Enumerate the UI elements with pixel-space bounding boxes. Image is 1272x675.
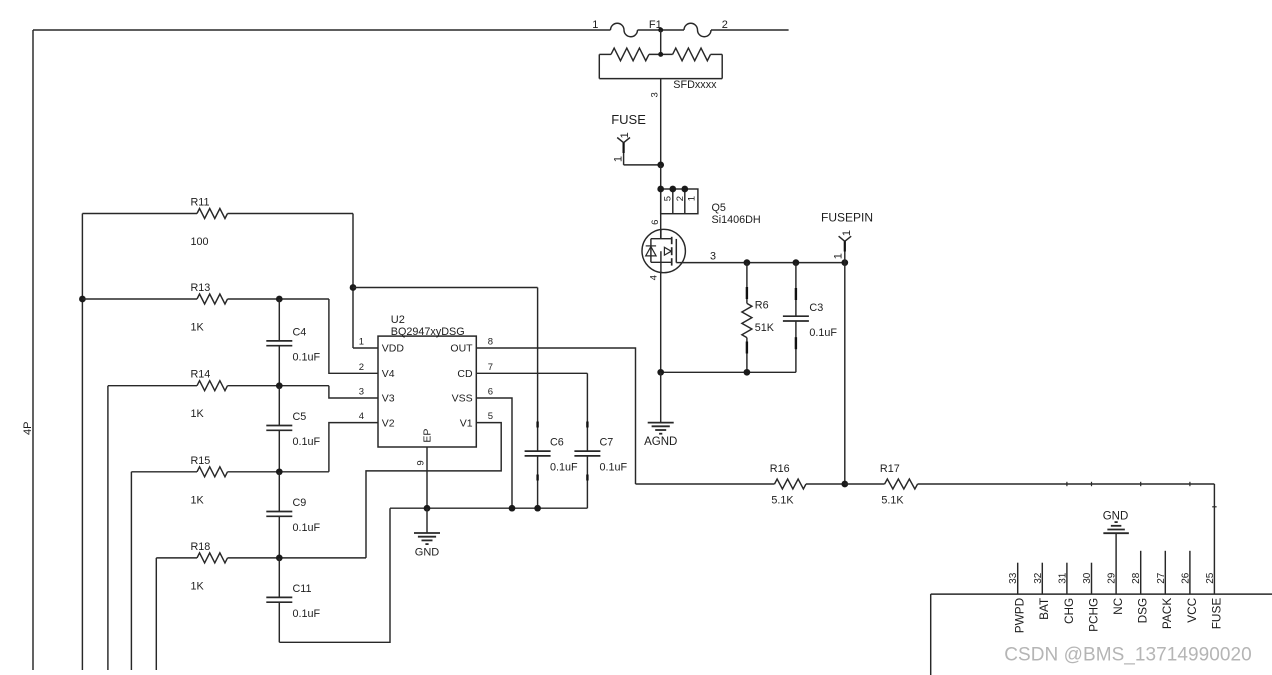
svg-text:FUSE: FUSE xyxy=(611,112,646,127)
value label 51K xyxy=(755,322,775,334)
svg-text:27: 27 xyxy=(1156,572,1167,584)
wire between fuse elements xyxy=(638,29,685,31)
value label 5.1K (R16) xyxy=(771,494,794,506)
junction node Q5 pin2 xyxy=(669,186,676,193)
transistor Q5 source pin block xyxy=(661,189,698,214)
component label R16 xyxy=(770,463,790,475)
pin number 7 of U2 xyxy=(488,362,493,373)
connector J1 body xyxy=(931,594,1272,675)
junction node gate/C3 xyxy=(793,259,800,266)
svg-text:R15: R15 xyxy=(191,455,211,467)
svg-text:100: 100 xyxy=(191,236,209,248)
wire top right segment xyxy=(711,29,789,31)
wire R15 to V2 jog xyxy=(329,423,378,472)
svg-text:25: 25 xyxy=(1205,572,1216,584)
capacitor C11 xyxy=(266,558,320,642)
resistor R13 xyxy=(82,294,329,304)
svg-text:PWPD: PWPD xyxy=(1013,598,1027,633)
pin label 2 of F1 xyxy=(722,19,728,31)
net label 4P xyxy=(22,421,34,434)
svg-text:1: 1 xyxy=(832,253,844,259)
svg-text:0.1uF: 0.1uF xyxy=(809,327,837,339)
svg-text:1: 1 xyxy=(613,156,625,162)
wire R13 left vertical xyxy=(81,299,83,670)
wire R17 down to connector pin 25 xyxy=(1213,484,1215,594)
junction node VDD/C6 branch xyxy=(350,284,357,291)
svg-text:5: 5 xyxy=(663,196,674,201)
ground label GND xyxy=(415,546,440,558)
svg-text:0.1uF: 0.1uF xyxy=(550,462,578,474)
component label R6 xyxy=(755,299,769,311)
pin label 1 of F1 xyxy=(592,19,598,31)
pin label 1 (FUSE lower) xyxy=(613,156,625,162)
resistor R16 xyxy=(636,479,845,489)
svg-text:U2: U2 xyxy=(391,314,405,326)
svg-text:1: 1 xyxy=(619,132,631,138)
resistor R17 xyxy=(845,479,1215,489)
wire FUSEPIN down xyxy=(844,263,846,484)
flag segment label 1 (FUSE upper) xyxy=(619,132,631,138)
wire Q5 source down xyxy=(660,273,662,373)
svg-text:32: 32 xyxy=(1033,572,1044,584)
junction node R18/C11 xyxy=(276,555,283,562)
svg-text:3: 3 xyxy=(710,250,716,262)
pin label 1 of Q5 xyxy=(686,196,697,201)
svg-text:8: 8 xyxy=(488,337,493,348)
wire SFD pin3 down xyxy=(660,79,662,165)
wire source to AGND xyxy=(660,372,662,422)
junction node R15/C5/C9 xyxy=(276,468,283,475)
pin label V2 of U2 xyxy=(382,417,395,429)
wire VDD pin stub xyxy=(353,347,378,349)
svg-text:C7: C7 xyxy=(600,437,614,449)
capacitor C9 xyxy=(266,472,320,558)
svg-text:GND: GND xyxy=(1103,511,1129,523)
wire tick on pin25 drop xyxy=(1212,506,1216,508)
svg-text:C6: C6 xyxy=(550,437,564,449)
pin label EP of U2 xyxy=(421,429,433,443)
wire F1 tap down to SFD xyxy=(660,30,662,54)
pin label 4 of Q5 xyxy=(649,275,660,280)
pin label VDD of U2 xyxy=(382,343,405,355)
svg-text:V2: V2 xyxy=(382,417,395,429)
wire R14 left vertical xyxy=(107,386,109,670)
svg-text:1: 1 xyxy=(592,19,598,31)
svg-text:EP: EP xyxy=(421,429,433,443)
svg-text:51K: 51K xyxy=(755,322,775,334)
pin label CD of U2 xyxy=(457,368,473,380)
svg-text:C4: C4 xyxy=(293,327,307,339)
svg-text:28: 28 xyxy=(1131,572,1142,584)
pin label V3 of U2 xyxy=(382,393,395,405)
junction node gate/FUSEPIN xyxy=(841,259,848,266)
wire branch to C6 xyxy=(353,287,538,289)
svg-text:33: 33 xyxy=(1008,572,1019,584)
svg-text:1K: 1K xyxy=(191,494,205,506)
svg-text:R17: R17 xyxy=(880,463,900,475)
svg-text:AGND: AGND xyxy=(644,436,677,448)
svg-text:R6: R6 xyxy=(755,299,769,311)
svg-text:9: 9 xyxy=(416,460,427,465)
svg-text:1K: 1K xyxy=(191,322,205,334)
svg-text:VDD: VDD xyxy=(382,343,405,355)
ground AGND xyxy=(648,423,674,434)
svg-text:Si1406DH: Si1406DH xyxy=(712,214,761,226)
pin label 2 of Q5 xyxy=(675,196,686,201)
ground GND (connector) xyxy=(1103,522,1129,533)
svg-text:0.1uF: 0.1uF xyxy=(293,608,321,620)
pin number 9 of U2 xyxy=(416,460,427,465)
pin label 3 of SFD xyxy=(649,92,660,97)
svg-text:2: 2 xyxy=(675,196,686,201)
svg-text:1K: 1K xyxy=(191,580,205,592)
svg-text:3: 3 xyxy=(359,387,364,398)
svg-text:6: 6 xyxy=(650,220,661,225)
pin label V4 of U2 xyxy=(382,368,395,380)
pin number 5 of U2 xyxy=(488,411,493,422)
component label F1 xyxy=(649,19,662,31)
svg-text:R16: R16 xyxy=(770,463,790,475)
pin label 5 of Q5 xyxy=(663,196,674,201)
wire R18 left vertical xyxy=(155,558,157,670)
junction node R13/C4 xyxy=(276,296,283,303)
resistor R15 xyxy=(131,467,329,477)
fuse F1 element 1 xyxy=(611,23,638,36)
pin label OUT of U2 xyxy=(450,343,473,355)
svg-text:DSG: DSG xyxy=(1136,598,1150,624)
svg-text:CHG: CHG xyxy=(1062,598,1076,624)
svg-text:V4: V4 xyxy=(382,368,395,380)
svg-text:C11: C11 xyxy=(293,583,312,595)
net label FUSEPIN xyxy=(821,211,873,225)
junction node EP/rail xyxy=(424,505,431,512)
svg-text:0.1uF: 0.1uF xyxy=(293,352,321,364)
connector pin numbers 33-25 xyxy=(1008,572,1216,584)
junction node source/rail xyxy=(657,369,664,376)
svg-text:4: 4 xyxy=(359,411,364,422)
wire R13 to V4 jog xyxy=(329,299,378,373)
junction node SFD center tap xyxy=(658,52,663,57)
junction node Q5 pin5 xyxy=(657,186,664,193)
wire NC pin to GND xyxy=(1115,533,1117,594)
watermark xyxy=(1004,644,1251,665)
value label 5.1K (R17) xyxy=(881,494,904,506)
resistor R11 xyxy=(82,209,353,219)
svg-text:Q5: Q5 xyxy=(712,202,726,214)
transistor Q5 MOSFET symbol xyxy=(642,229,685,272)
svg-text:1: 1 xyxy=(841,230,853,236)
svg-text:PCHG: PCHG xyxy=(1086,598,1100,632)
svg-text:0.1uF: 0.1uF xyxy=(293,522,321,534)
component label R18 xyxy=(191,541,211,553)
capacitor C3 xyxy=(783,263,838,373)
svg-text:NC: NC xyxy=(1111,597,1125,615)
net label FUSE xyxy=(611,112,646,127)
svg-text:VSS: VSS xyxy=(452,393,473,405)
svg-text:FUSE: FUSE xyxy=(1209,598,1223,630)
value label Si1406DH xyxy=(712,214,761,226)
pin label 1 (FUSEPIN lower) xyxy=(832,253,844,259)
wire CD to C7 xyxy=(476,372,587,374)
svg-text:4P: 4P xyxy=(22,421,34,434)
junction node Q5 pin1 xyxy=(681,186,688,193)
capacitor C5 xyxy=(266,386,320,472)
wire Q5 gate row xyxy=(682,262,845,264)
wire R18 to V1 jog xyxy=(366,423,501,558)
svg-text:BAT: BAT xyxy=(1037,598,1051,620)
ground label AGND xyxy=(644,436,677,448)
svg-text:PACK: PACK xyxy=(1160,598,1174,629)
component label R14 xyxy=(191,369,211,381)
op-amp U2 body xyxy=(378,336,476,447)
junction node FUSE xyxy=(657,162,664,169)
junction node R13 left xyxy=(79,296,86,303)
svg-text:C3: C3 xyxy=(809,302,823,314)
pin number 4 of U2 xyxy=(359,411,364,422)
svg-text:5: 5 xyxy=(488,411,493,422)
svg-text:2: 2 xyxy=(359,362,364,373)
svg-text:R11: R11 xyxy=(191,197,210,209)
svg-text:1: 1 xyxy=(686,196,697,201)
pin label 6 of Q5 xyxy=(650,220,661,225)
wire EP stub xyxy=(426,447,428,508)
svg-text:V1: V1 xyxy=(460,417,473,429)
wire VSS jog xyxy=(476,398,512,508)
fuse-resistor SFDxxxx body xyxy=(599,48,722,78)
wire GND rail xyxy=(390,507,587,509)
wire C11 bottom return xyxy=(279,508,390,642)
value label SFDxxxx xyxy=(673,79,717,91)
svg-text:1K: 1K xyxy=(191,408,205,420)
junction node R16/R17/FUSEPIN xyxy=(841,481,848,488)
wire R14 to V3 jog xyxy=(329,386,378,398)
junction node VSS/rail xyxy=(509,505,516,512)
fuse F1 element 2 xyxy=(684,23,711,36)
svg-text:0.1uF: 0.1uF xyxy=(293,436,321,448)
component label R11 xyxy=(191,197,210,209)
junction node R14/C4/C5 xyxy=(276,382,283,389)
wire AGND rail xyxy=(661,371,796,373)
svg-text:4: 4 xyxy=(649,275,660,280)
svg-text:V3: V3 xyxy=(382,393,395,405)
svg-text:C9: C9 xyxy=(293,497,307,509)
wire R11 left vertical xyxy=(81,214,83,300)
svg-text:29: 29 xyxy=(1107,572,1118,584)
wire R15 left vertical xyxy=(130,472,132,670)
svg-text:3: 3 xyxy=(649,92,660,97)
svg-text:CSDN @BMS_13714990020: CSDN @BMS_13714990020 xyxy=(1004,644,1251,665)
svg-text:SFDxxxx: SFDxxxx xyxy=(673,79,717,91)
connector pin stubs xyxy=(1018,551,1190,594)
ground label GND (connector) xyxy=(1103,511,1129,523)
svg-text:31: 31 xyxy=(1057,572,1068,584)
svg-text:7: 7 xyxy=(488,362,493,373)
net flag FUSEPIN xyxy=(839,236,852,262)
capacitor C6 xyxy=(525,288,578,509)
net flag FUSE xyxy=(617,138,661,165)
svg-text:5.1K: 5.1K xyxy=(771,494,794,506)
junction node F1 center tap xyxy=(658,28,663,33)
svg-text:1: 1 xyxy=(359,337,364,348)
junction node gate/R6 xyxy=(744,259,751,266)
svg-text:OUT: OUT xyxy=(450,343,473,355)
component label U2 xyxy=(391,314,405,326)
svg-text:26: 26 xyxy=(1180,572,1191,584)
component label R15 xyxy=(191,455,211,467)
wire EP to GND xyxy=(426,508,428,532)
pin number 1 of U2 xyxy=(359,337,364,348)
ground GND xyxy=(414,533,440,544)
connector pin names xyxy=(1013,597,1224,633)
svg-text:C5: C5 xyxy=(293,411,307,423)
junction node C6/rail xyxy=(534,505,541,512)
svg-text:VCC: VCC xyxy=(1185,597,1199,622)
svg-text:R14: R14 xyxy=(191,369,211,381)
value label 100 xyxy=(191,236,209,248)
wire FUSE junction down to Q5 xyxy=(660,165,662,239)
pin label V1 of U2 xyxy=(460,417,473,429)
svg-text:FUSEPIN: FUSEPIN xyxy=(821,211,873,225)
wire top PACK+ left segment xyxy=(33,29,611,31)
svg-text:0.1uF: 0.1uF xyxy=(600,462,628,474)
component label R13 xyxy=(191,282,211,294)
value label 1K (R15) xyxy=(191,494,205,506)
pin label VSS of U2 xyxy=(452,393,473,405)
junction node R6/rail xyxy=(744,369,751,376)
svg-text:5.1K: 5.1K xyxy=(881,494,904,506)
wire R11 to VDD vertical xyxy=(352,214,354,349)
resistor R6 xyxy=(742,263,752,373)
component label R17 xyxy=(880,463,900,475)
svg-text:6: 6 xyxy=(488,387,493,398)
wire OUT to R16 xyxy=(476,348,635,484)
pin number 8 of U2 xyxy=(488,337,493,348)
svg-text:R18: R18 xyxy=(191,541,211,553)
component label Q5 xyxy=(712,202,726,214)
pin number 6 of U2 xyxy=(488,387,493,398)
value label 1K (R14) xyxy=(191,408,205,420)
value label 1K (R13) xyxy=(191,322,205,334)
svg-text:GND: GND xyxy=(415,546,440,558)
capacitor C7 xyxy=(574,373,627,508)
resistor R14 xyxy=(108,381,329,391)
wire crossing ticks on R17 net xyxy=(1067,482,1190,486)
pin number 2 of U2 xyxy=(359,362,364,373)
value label 1K (R18) xyxy=(191,580,205,592)
resistor R18 xyxy=(156,553,366,563)
wire 4P vertical rail xyxy=(32,30,34,670)
flag segment label 1 (FUSEPIN upper) xyxy=(841,230,853,236)
svg-text:BQ2947xyDSG: BQ2947xyDSG xyxy=(391,326,465,338)
value label BQ2947xyDSG xyxy=(391,326,465,338)
svg-text:CD: CD xyxy=(457,368,473,380)
capacitor C4 xyxy=(266,299,320,386)
pin number 3 of U2 xyxy=(359,387,364,398)
svg-text:R13: R13 xyxy=(191,282,211,294)
pin label 3 of Q5 xyxy=(710,250,716,262)
svg-text:30: 30 xyxy=(1082,572,1093,584)
